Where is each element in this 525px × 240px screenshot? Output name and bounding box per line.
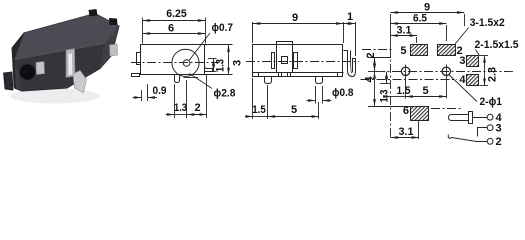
svg-text:3.1: 3.1	[399, 126, 414, 138]
dimension 2 bottom	[187, 74, 207, 118]
svg-text:2-ϕ1: 2-ϕ1	[480, 96, 503, 108]
plug barrel	[449, 112, 473, 124]
dimension 3.1 layout bottom	[391, 120, 420, 139]
dimension 3 right	[205, 45, 233, 76]
lower axis line	[431, 108, 462, 110]
pin 2 circle	[487, 138, 493, 144]
right contact	[294, 53, 298, 69]
side view body	[253, 42, 356, 84]
svg-text:2.3: 2.3	[487, 67, 499, 82]
svg-text:1.3: 1.3	[378, 90, 390, 103]
front view body	[132, 45, 213, 83]
svg-text:1.3: 1.3	[174, 102, 187, 114]
pin 3 wire	[478, 128, 488, 137]
svg-text:3: 3	[496, 123, 502, 135]
leader 2-phi1	[449, 75, 477, 102]
pin 4 wire	[472, 117, 487, 119]
pad 5	[411, 45, 428, 56]
dimension 1 side	[343, 22, 355, 56]
right through pin	[316, 77, 323, 84]
svg-text:6: 6	[168, 23, 174, 35]
svg-text:ϕ0.7: ϕ0.7	[212, 22, 234, 34]
svg-text:6.5: 6.5	[413, 13, 427, 25]
dimension 5 side	[268, 102, 319, 119]
dimension 2 layout left	[368, 58, 391, 72]
pin 3 circle	[487, 125, 493, 131]
dimension 6.25	[143, 18, 206, 44]
dimension 4 layout left	[368, 72, 410, 107]
top bump	[277, 42, 293, 45]
svg-text:1: 1	[347, 11, 353, 23]
svg-text:4: 4	[364, 76, 376, 83]
front view center line	[131, 62, 219, 64]
bottom step lines	[258, 72, 260, 77]
left foot	[132, 74, 140, 77]
dimension 0.9	[133, 84, 158, 101]
svg-text:1.3: 1.3	[215, 59, 227, 72]
pad 4	[467, 75, 479, 86]
pad 3	[467, 56, 479, 67]
plug tip plate	[469, 112, 473, 124]
center pin circle	[183, 60, 190, 67]
svg-text:0.9: 0.9	[153, 85, 167, 97]
connector photo	[4, 9, 120, 104]
dimension 1.5 side	[245, 78, 268, 119]
leader phi0.7	[189, 33, 210, 61]
leader phi2.8	[190, 74, 213, 89]
layout left axis	[390, 14, 392, 48]
leader 2-1.5x1.5	[476, 50, 480, 56]
side view center line	[246, 61, 359, 63]
dimension phi0.8	[307, 86, 332, 104]
dimension 3.1 layout top	[391, 36, 418, 44]
dimension 1.3 layout	[380, 72, 390, 84]
svg-text:2: 2	[365, 52, 377, 58]
dimension 1.3 right	[208, 58, 217, 71]
svg-text:5: 5	[422, 85, 428, 97]
contact legs	[279, 73, 291, 77]
svg-text:3: 3	[232, 60, 244, 66]
svg-text:3: 3	[459, 55, 465, 67]
dimension 6	[143, 33, 206, 35]
J hook pin	[344, 51, 356, 77]
left through pin	[265, 77, 272, 84]
pin 4 circle	[487, 114, 493, 120]
dimension 1.5 layout	[383, 79, 406, 99]
barrel circle	[172, 49, 199, 76]
svg-text:1.5: 1.5	[397, 85, 411, 97]
dimension 9 side	[253, 22, 344, 43]
standoff line	[184, 77, 199, 79]
bottom foot	[175, 75, 180, 83]
pad 6	[411, 107, 429, 121]
dimension 1.3 bottom	[166, 80, 188, 118]
left tab	[137, 53, 141, 65]
dimension 5 layout	[406, 77, 447, 99]
dimension 2.3	[480, 55, 489, 85]
center contact square	[282, 57, 288, 64]
svg-text:2-1.5x1.5: 2-1.5x1.5	[475, 39, 519, 51]
svg-text:9: 9	[292, 12, 298, 24]
pin 2 switch arm	[448, 135, 487, 142]
svg-text:2: 2	[194, 102, 200, 114]
pad row center line	[362, 49, 392, 51]
svg-text:3.1: 3.1	[397, 25, 412, 37]
svg-text:1.5: 1.5	[252, 104, 266, 116]
svg-text:5: 5	[400, 45, 406, 57]
lower horizontal center line	[361, 79, 458, 81]
svg-text:ϕ0.8: ϕ0.8	[332, 87, 354, 99]
layout horizontal center line	[376, 71, 513, 73]
svg-text:ϕ2.8: ϕ2.8	[214, 88, 236, 100]
pad 2	[438, 45, 456, 56]
svg-text:2: 2	[496, 136, 502, 148]
hole right	[442, 65, 450, 79]
dimension 9 layout	[391, 13, 465, 27]
svg-text:3-1.5x2: 3-1.5x2	[470, 17, 505, 29]
svg-text:4: 4	[459, 74, 466, 86]
right pin bracket	[205, 51, 213, 72]
hole left	[401, 65, 409, 79]
svg-text:6.25: 6.25	[166, 8, 187, 20]
left contact	[272, 53, 275, 69]
svg-text:5: 5	[291, 104, 297, 116]
leader 3-1.5x2	[455, 28, 469, 44]
dimension 6.5 layout	[391, 24, 447, 42]
